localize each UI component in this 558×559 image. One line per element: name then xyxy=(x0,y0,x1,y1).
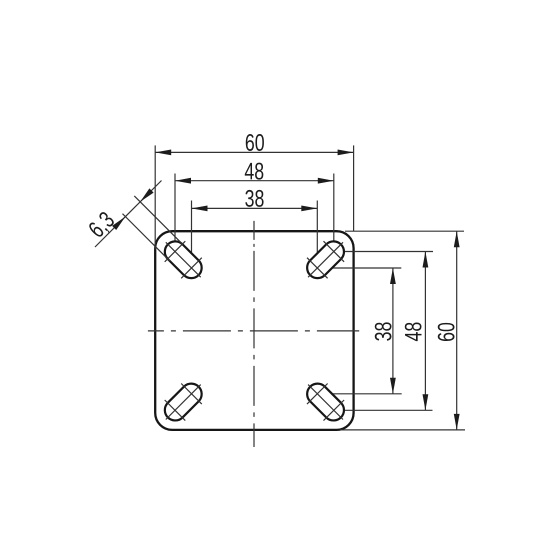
slot TR axis centerline xyxy=(308,242,343,277)
extension line x=191.5 (for 38 top, to TL slot inner center) xyxy=(191,201,193,269)
slot BR inner cross xyxy=(307,384,328,405)
svg-text:60: 60 xyxy=(245,130,265,156)
extension line y=410.3 (BR slot outer center to right, for 48 right) xyxy=(334,409,433,411)
dimension line 48 right xyxy=(423,252,429,411)
dimension line 60 right xyxy=(454,231,460,430)
slot BL inner cross xyxy=(181,384,202,405)
dimension text 6,3 xyxy=(84,207,120,243)
6,3 lower extension line (tangent to TL slot lower side) xyxy=(123,214,171,262)
extension line x=353.6 (right, for 60 top) xyxy=(353,145,355,231)
slot TR outline xyxy=(307,241,344,278)
slot BR outer cross xyxy=(324,400,345,421)
dimension text 48 right xyxy=(401,322,427,342)
extension line y=429.9 (bottom edge extended right, for 60 right) xyxy=(340,429,465,431)
slot TL outer cross xyxy=(165,241,186,262)
vertical centerline xyxy=(253,221,255,447)
slot TL inner cross xyxy=(181,258,202,279)
extension line x=317.3 (for 38 top, to TR slot inner center) xyxy=(316,201,318,269)
dimension text 38 right xyxy=(371,322,397,342)
extension line y=393.8 (BR slot inner center to right, for 38 right) xyxy=(317,393,401,395)
slot BR axis centerline xyxy=(308,385,343,420)
slot TL outline xyxy=(165,241,202,278)
dimension text 38 top xyxy=(245,186,265,212)
slot TR outer cross xyxy=(324,241,345,262)
extension line x=175 (for 48 top, to TL slot outer center) xyxy=(174,174,176,252)
dimension line 38 right xyxy=(390,268,396,394)
svg-text:60: 60 xyxy=(434,322,460,342)
dimension line 60 top xyxy=(155,150,353,156)
slot BL axis centerline xyxy=(166,385,201,420)
horizontal centerline xyxy=(148,330,359,332)
dimension text 60 right xyxy=(434,322,460,342)
slot BL outer cross xyxy=(165,400,186,421)
svg-text:38: 38 xyxy=(245,186,265,212)
extension line x=333.8 (for 48 top, to TR slot outer center) xyxy=(333,174,335,252)
slot BL outline xyxy=(165,384,202,421)
extension line y=251.5 (TR slot outer center to right, for 48 right) xyxy=(334,251,433,253)
extension line x=155 (left, for 60 top) xyxy=(154,145,156,249)
6,3 upper extension line (tangent to TL slot upper side) xyxy=(134,196,182,244)
plate outline (60x60 mounting plate, rounded corners) xyxy=(155,231,353,430)
slot TL axis centerline xyxy=(166,242,201,277)
dimension text 60 top xyxy=(245,130,265,156)
6,3 dimension line xyxy=(95,181,162,248)
dimension text 48 top xyxy=(244,159,264,185)
dimension line 38 top xyxy=(192,206,318,212)
dimension line 48 top xyxy=(175,178,334,184)
slot BR outline xyxy=(307,384,344,421)
extension line y=231.2 (top edge extended right, for 60 right) xyxy=(345,230,464,232)
slot TR inner cross xyxy=(307,258,328,279)
svg-text:48: 48 xyxy=(401,322,427,342)
extension line y=268.0 (TR slot inner center to right, for 38 right) xyxy=(317,267,401,269)
svg-text:48: 48 xyxy=(244,159,264,185)
svg-text:38: 38 xyxy=(371,322,397,342)
